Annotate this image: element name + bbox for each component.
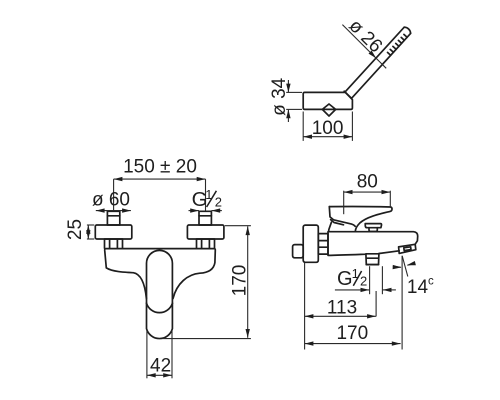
extension line left (wall) xyxy=(304,263,306,350)
extension lines 42 xyxy=(146,331,148,379)
svg-text:2: 2 xyxy=(360,274,367,289)
lever neck back xyxy=(329,222,332,231)
svg-text:ø 34: ø 34 xyxy=(269,77,290,115)
dimension line 170 (front) xyxy=(247,226,249,337)
svg-text:G: G xyxy=(337,268,353,290)
dimension line 80 xyxy=(344,191,391,193)
side body xyxy=(328,232,418,256)
dimension line 100 xyxy=(303,136,352,138)
lever lower lip xyxy=(331,220,344,225)
svg-text:14: 14 xyxy=(407,277,429,298)
shower handle upper edge xyxy=(345,27,404,92)
shower outlet fitting xyxy=(366,254,379,265)
extension line 170 top (front) xyxy=(225,225,251,227)
dimension line 42 xyxy=(147,374,172,376)
14° vertical reference / 170 extension right xyxy=(401,256,403,350)
handle knurling ticks xyxy=(388,34,408,55)
extension lines 25 xyxy=(87,224,94,226)
lever back edge xyxy=(329,207,355,227)
svg-text:170: 170 xyxy=(230,265,251,297)
svg-text:42: 42 xyxy=(150,355,171,376)
svg-text:150 ± 20: 150 ± 20 xyxy=(123,157,197,178)
right hex nut xyxy=(197,239,215,248)
svg-text:170: 170 xyxy=(336,323,368,344)
wall pipe stub xyxy=(293,245,304,258)
handle joint line xyxy=(344,91,351,98)
diverter knob neck xyxy=(369,228,377,232)
spray nozzle diamond xyxy=(322,104,335,116)
threaded hex connector xyxy=(318,234,328,255)
14° left arrow xyxy=(393,266,401,267)
handle capsule middle arc xyxy=(147,303,173,312)
arrow stubs ø34 xyxy=(287,80,289,92)
svg-text:ø 60: ø 60 xyxy=(92,189,130,210)
hand shower head body xyxy=(303,92,352,109)
G1/2 arrows (front) xyxy=(189,210,200,212)
shower outlet bottom edge (thick) xyxy=(366,264,378,266)
side escutcheon xyxy=(303,225,318,262)
left hex nut xyxy=(105,239,123,248)
svg-text:2: 2 xyxy=(215,195,222,210)
aerator (tilted) xyxy=(399,244,416,253)
right inlet fitting xyxy=(199,211,211,225)
right escutcheon xyxy=(187,225,224,239)
left escutcheon xyxy=(95,225,132,239)
center line right connection xyxy=(205,179,207,211)
dimension line 150 ± 20 xyxy=(114,178,206,180)
aerator insert xyxy=(404,247,411,251)
front body outline xyxy=(105,249,216,299)
G1/2 leader arrows (side) xyxy=(335,289,369,291)
shower handle tip cap xyxy=(404,27,410,33)
left inlet fitting xyxy=(107,211,119,225)
svg-text:113: 113 xyxy=(327,298,357,319)
handle capsule lower part xyxy=(147,303,173,338)
svg-text:80: 80 xyxy=(357,172,378,193)
lever handle (side) xyxy=(329,207,392,231)
dimension line ø60 xyxy=(96,210,131,212)
svg-text:100: 100 xyxy=(312,118,344,139)
handle capsule top arc xyxy=(147,250,173,303)
center line left connection xyxy=(113,179,115,211)
outlet centerline xyxy=(375,291,377,317)
extension lines ø34 xyxy=(286,91,302,93)
arrowhead on ø26 line xyxy=(369,51,377,59)
extension lines 100 xyxy=(302,112,304,141)
dimension arrows 25 xyxy=(87,225,89,239)
dimension line 113 xyxy=(305,315,376,317)
14° right arrow xyxy=(407,264,414,266)
shower handle lower edge xyxy=(352,33,411,98)
dimension line 170 (side) xyxy=(305,343,401,345)
extension line 80 left xyxy=(343,191,345,215)
extension line 170 bottom (front) xyxy=(163,338,251,340)
diverter knob cap xyxy=(365,224,381,228)
14° tilted line xyxy=(402,256,408,277)
dimension line ø26 across handle xyxy=(342,25,386,69)
G1/2 extension lines (side) xyxy=(369,266,371,294)
svg-text:25: 25 xyxy=(65,219,86,240)
extension line 80 right xyxy=(389,191,391,208)
svg-text:c: c xyxy=(428,276,434,288)
